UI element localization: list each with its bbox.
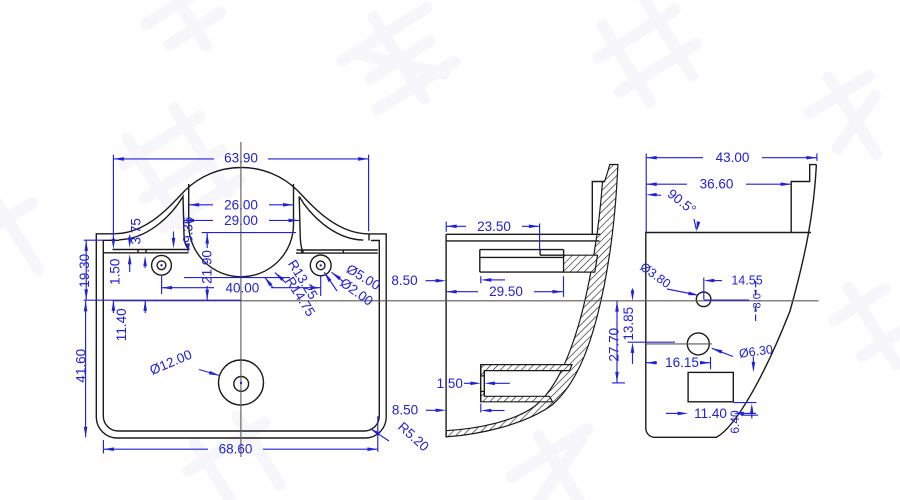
dim 40.00 <box>162 276 321 296</box>
bore slot wall left <box>188 184 190 224</box>
leader d6.30 <box>711 347 733 357</box>
small arrow 3.75 left <box>112 239 116 250</box>
right outer S-curve <box>297 190 369 234</box>
svg-text:13.85: 13.85 <box>621 307 636 341</box>
rectangular cutout <box>688 372 733 401</box>
rim step right <box>368 234 370 241</box>
dim 11.40 arrows <box>112 300 147 313</box>
dim 29.00 <box>183 219 299 223</box>
ledge left ticks <box>137 250 139 253</box>
left hole inner <box>157 261 166 270</box>
ledge right lines <box>297 249 378 251</box>
ledge plate section <box>480 249 564 251</box>
dim 1.50 middle <box>464 382 510 386</box>
dim 8.50 upper <box>426 276 506 283</box>
leader R13.25 <box>263 276 273 288</box>
middle view <box>446 165 618 437</box>
svg-text:63.90: 63.90 <box>224 151 258 166</box>
blue center dots <box>160 264 322 384</box>
bore slot wall right <box>293 184 295 224</box>
leader d2.00 <box>323 271 337 291</box>
leader d3.80 <box>667 289 699 297</box>
dim 8.50 lower <box>426 404 505 413</box>
horizontal centerline middle+right views <box>113 300 818 302</box>
dim 27.70 <box>612 301 625 383</box>
svg-text:1.50: 1.50 <box>437 376 463 391</box>
svg-text:3.75: 3.75 <box>129 218 144 244</box>
left edge <box>445 234 447 437</box>
right view <box>646 165 817 438</box>
extension line bore bottom <box>184 277 290 279</box>
dim 29.50 <box>446 276 563 297</box>
svg-text:11.40: 11.40 <box>694 406 727 421</box>
wall top step <box>592 182 605 235</box>
dim 19.30 <box>84 240 103 300</box>
channel cap lines <box>480 365 482 402</box>
left outer S-curve <box>114 190 185 234</box>
ledge left lines <box>113 249 189 251</box>
section wall hatched shell <box>446 165 618 437</box>
svg-text:19.30: 19.30 <box>77 254 92 288</box>
center hole inner <box>234 377 249 392</box>
leader R14.75 <box>274 271 286 283</box>
channel bottom wall hatched <box>481 391 553 401</box>
centerlines <box>113 142 818 457</box>
small arrow pair 1.50 front <box>128 235 132 272</box>
front view vertical centerline <box>240 142 242 457</box>
leader d12.00 <box>199 370 220 378</box>
svg-text:1.50: 1.50 <box>108 259 123 285</box>
svg-text:27.70: 27.70 <box>606 328 621 362</box>
top tab <box>791 165 816 233</box>
svg-text:8.50: 8.50 <box>392 402 418 417</box>
dim 68.60 <box>103 416 378 453</box>
svg-text:8.0: 8.0 <box>751 293 763 308</box>
inner wall offset <box>103 240 379 431</box>
dim 23.50 <box>446 222 539 251</box>
center hole outer <box>219 360 264 405</box>
ledge right ticks <box>301 250 303 253</box>
small arrow 9.36 down <box>186 243 190 254</box>
svg-text:26.00: 26.00 <box>224 197 258 212</box>
angle 90.5 leader <box>646 193 700 232</box>
svg-text:29.50: 29.50 <box>489 284 523 299</box>
dim 36.60 <box>646 182 791 186</box>
dim 11.40 right <box>666 412 756 416</box>
dim 63.90 <box>113 155 368 241</box>
dimension texts <box>74 150 774 457</box>
dim 6.40 arrows <box>734 403 759 419</box>
svg-text:40.00: 40.00 <box>226 281 260 296</box>
svg-text:11.40: 11.40 <box>114 308 129 341</box>
small arrow 3.75 right <box>172 232 176 249</box>
svg-text:36.60: 36.60 <box>700 176 734 191</box>
right hole inner <box>316 261 325 270</box>
top face band <box>446 233 600 235</box>
svg-text:41.60: 41.60 <box>74 349 89 383</box>
dimensions <box>84 153 817 453</box>
dim 16.15 <box>646 357 711 370</box>
left hole outer <box>152 255 172 275</box>
right inner S-curve <box>299 197 363 253</box>
svg-text:21.90: 21.90 <box>199 250 214 284</box>
hole d3.8 <box>696 292 711 307</box>
d6.3 hole centerline <box>646 343 712 345</box>
small arrow up at 145 ledge <box>143 256 147 268</box>
channel top wall hatched <box>481 365 572 376</box>
dim 21.90 <box>202 233 296 301</box>
front view <box>96 167 386 438</box>
svg-text:43.00: 43.00 <box>716 150 750 165</box>
body outline <box>96 234 386 438</box>
ledge web hatched <box>564 255 598 272</box>
svg-text:6.40: 6.40 <box>728 410 742 434</box>
leader R5.20 <box>369 427 389 441</box>
body outline with curve <box>646 165 817 438</box>
svg-text:23.50: 23.50 <box>477 219 511 234</box>
dim 13.85 <box>628 289 676 364</box>
leader d5.00 <box>330 271 343 282</box>
svg-text:8.50: 8.50 <box>391 273 417 288</box>
dim 8.0 ticks <box>704 281 757 321</box>
right hole outer <box>310 255 331 276</box>
left inner S-curve <box>119 196 190 249</box>
extension line y=300.4 <box>84 299 241 301</box>
svg-text:16.15: 16.15 <box>665 355 699 370</box>
svg-text:9.36: 9.36 <box>180 217 195 243</box>
dim 43.00 <box>646 153 817 232</box>
dim 14.55 <box>704 278 722 300</box>
svg-text:29.00: 29.00 <box>224 213 258 228</box>
dim 41.60 <box>84 301 88 437</box>
bore arc <box>189 224 294 276</box>
svg-text:68.60: 68.60 <box>219 442 253 457</box>
vertical leader to rect top <box>752 357 756 373</box>
outer top arc <box>186 167 298 190</box>
hole d6.3 <box>687 333 709 355</box>
svg-text:14.55: 14.55 <box>731 274 762 288</box>
dim 26.00 <box>189 203 294 207</box>
